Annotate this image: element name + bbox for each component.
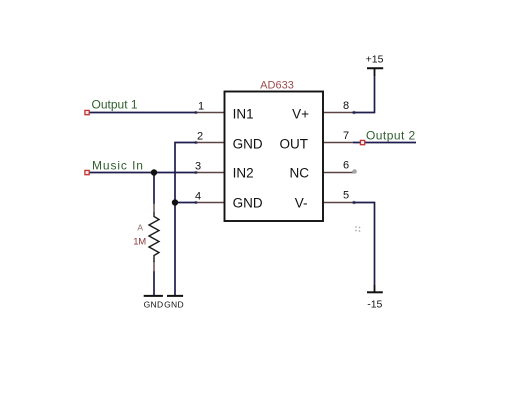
svg-text:8: 8 (343, 100, 349, 112)
svg-text:5: 5 (343, 190, 349, 202)
svg-text:GND: GND (233, 137, 263, 152)
svg-text:IN1: IN1 (233, 106, 254, 121)
svg-text:GND: GND (164, 300, 184, 310)
svg-text:-15: -15 (367, 298, 382, 310)
svg-text:Music In: Music In (92, 159, 144, 173)
svg-text:IN2: IN2 (233, 165, 254, 180)
svg-text:1: 1 (198, 101, 204, 113)
svg-text:6: 6 (343, 160, 349, 172)
svg-text:Output 2: Output 2 (366, 129, 416, 143)
svg-text:2: 2 (197, 131, 203, 143)
svg-text:7: 7 (343, 130, 349, 142)
svg-text:AD633: AD633 (260, 80, 294, 92)
svg-text:3: 3 (195, 161, 201, 173)
svg-text:GND: GND (233, 195, 263, 210)
svg-text:A: A (137, 222, 143, 232)
svg-text:+15: +15 (366, 53, 384, 65)
svg-text:NC: NC (290, 165, 310, 180)
svg-text:V-: V- (295, 195, 308, 210)
svg-text:1M: 1M (133, 237, 146, 248)
svg-text:GND: GND (144, 300, 164, 310)
svg-text:Output 1: Output 1 (92, 98, 138, 112)
svg-text:OUT: OUT (280, 137, 309, 152)
svg-text:4: 4 (195, 191, 201, 203)
svg-text:V+: V+ (292, 106, 309, 121)
